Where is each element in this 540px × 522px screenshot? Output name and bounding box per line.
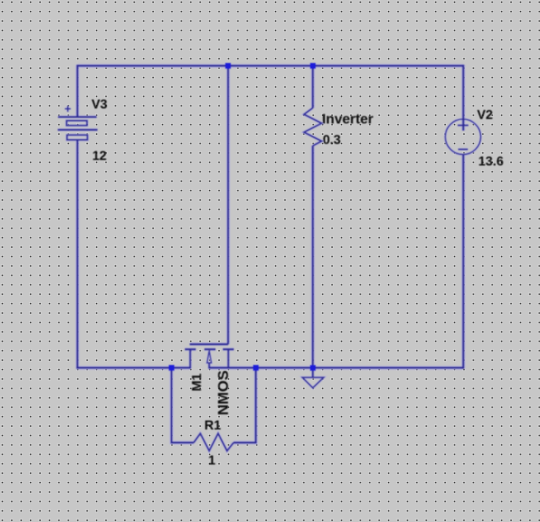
battery V3 plate 1 — [58, 116, 97, 118]
svg-text:V2: V2 — [477, 107, 493, 122]
svg-text:0.3: 0.3 — [323, 132, 341, 147]
junction node rail R1 right — [253, 365, 259, 371]
transistor M1 channel segment right — [223, 348, 234, 350]
svg-text:Inverter: Inverter — [322, 110, 374, 126]
battery V3 plus sign — [65, 106, 71, 112]
wire R1 left stub — [172, 368, 194, 443]
wire inverter bottom lead — [312, 146, 314, 368]
transistor M1 channel segment left — [185, 348, 196, 350]
junction node rail R1 left — [169, 365, 175, 371]
battery V3 cell rect 2 — [67, 135, 87, 140]
battery V3 cell rect 1 — [67, 121, 87, 126]
junction node top inverter — [310, 63, 316, 69]
wire bottom rail right — [209, 367, 463, 369]
transistor M1 drain stem — [189, 349, 191, 368]
svg-text:12: 12 — [92, 148, 106, 163]
battery V3 plate 2 — [58, 129, 98, 131]
svg-text:1: 1 — [208, 453, 215, 468]
junction node top gate — [225, 63, 231, 69]
wire top rail — [77, 65, 463, 67]
resistor R1 zigzag — [194, 433, 234, 451]
svg-text:13.6: 13.6 — [478, 154, 503, 169]
wire battery bottom lead — [76, 140, 78, 369]
transistor M1 source stem — [227, 349, 229, 368]
V2 minus sign — [458, 148, 468, 150]
svg-text:V3: V3 — [92, 96, 108, 111]
wire bottom rail left — [76, 367, 190, 369]
V2 plus sign — [458, 124, 469, 126]
wire R1 right stub — [234, 368, 256, 443]
V2 source circle — [445, 119, 480, 154]
ground triangle — [302, 377, 323, 388]
wire battery top lead — [76, 65, 78, 117]
resistor Inverter zigzag — [304, 108, 322, 146]
svg-text:R1: R1 — [204, 418, 221, 433]
junction node rail ground — [310, 365, 316, 371]
wire gate lead vertical — [227, 66, 229, 344]
transistor M1 bulk arrow head — [207, 351, 211, 363]
wire and symbol glow underlay (decorative halo) — [58, 65, 481, 451]
svg-text:M1: M1 — [189, 373, 204, 391]
ground stub — [312, 368, 314, 377]
transistor M1 channel segment middle — [204, 348, 215, 350]
transistor M1 bulk arrow shaft — [208, 363, 210, 369]
wire V2 bottom lead — [462, 155, 464, 369]
wire inverter top lead — [312, 66, 314, 108]
wire V2 top lead — [462, 65, 464, 131]
transistor M1 gate bar — [190, 343, 228, 345]
svg-text:NMOS: NMOS — [215, 370, 232, 415]
